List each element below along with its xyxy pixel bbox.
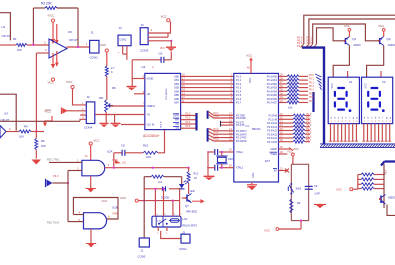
svg-text:NPN BCE: NPN BCE [186,211,197,214]
svg-text:P0.6/AD6: P0.6/AD6 [267,98,278,101]
svg-text:P2.1/A9: P2.1/A9 [268,118,277,121]
svg-text:DB7: DB7 [174,102,179,105]
svg-text:-VCC: -VCC [44,108,52,112]
svg-text:P3.2: P3.2 [186,113,191,115]
svg-text:EXT: EXT [265,159,270,163]
svg-text:P0.5: P0.5 [309,94,314,96]
svg-text:P3.6/WR: P3.6/WR [236,117,246,120]
svg-text:D1: D1 [159,180,163,184]
svg-text:CA: CA [349,80,353,84]
svg-text:J2: J2 [87,95,91,99]
svg-text:CON1: CON1 [90,56,99,60]
svg-text:OP-07: OP-07 [2,34,11,38]
svg-text:U1: U1 [2,25,6,29]
svg-text:12M: 12M [228,158,233,161]
svg-text:R5: R5 [41,139,45,143]
svg-text:P2.1: P2.1 [307,118,312,120]
svg-text:PSEN: PSEN [270,153,277,156]
svg-text:VCC: VCC [160,48,165,50]
svg-text:DB1: DB1 [174,79,179,82]
svg-text:P2.5: P2.5 [307,133,312,135]
svg-text:DIODE: DIODE [161,196,169,200]
svg-text:U2A: U2A [107,150,113,154]
svg-text:P1.4: P1.4 [236,90,242,93]
svg-text:CON2: CON2 [138,255,146,259]
svg-text:INTR: INTR [173,114,179,117]
svg-text:P0.0: P0.0 [309,75,314,77]
svg-text:VCC: VCC [293,147,299,151]
svg-text:10K: 10K [146,155,151,159]
svg-text:P2.0: P2.0 [307,114,312,116]
svg-text:P3.4/T0: P3.4/T0 [236,124,245,127]
svg-text:Q1: Q1 [352,37,356,41]
svg-text:Q7: Q7 [185,204,189,208]
svg-text:P2.7: P2.7 [307,140,312,142]
svg-text:XTAL1: XTAL1 [236,151,244,154]
svg-text:10K: 10K [19,135,24,139]
svg-text:CON4: CON4 [84,126,93,130]
svg-text:R4: R4 [24,125,28,129]
svg-text:P3.4: P3.4 [186,122,191,124]
svg-text:C9: C9 [314,184,318,188]
svg-text:10K: 10K [288,107,293,110]
svg-text:P0.4/AD4: P0.4/AD4 [267,90,278,93]
svg-text:LS1: LS1 [183,217,188,221]
svg-text:P1.1: P1.1 [236,79,242,82]
svg-text:CON2: CON2 [119,38,127,41]
svg-text:AGND: AGND [147,78,154,81]
svg-text:CON3: CON3 [140,49,149,53]
svg-text:-IN: -IN [147,114,150,117]
svg-text:VREF/2: VREF/2 [147,105,156,108]
svg-text:VCC: VCC [102,199,108,203]
svg-text:DB0: DB0 [174,75,179,78]
svg-text:P0.1/AD1: P0.1/AD1 [267,79,278,82]
svg-text:U1: U1 [246,124,250,128]
svg-text:Q2: Q2 [387,37,391,41]
svg-text:CLK IN: CLK IN [147,124,155,127]
svg-text:A9015: A9015 [388,44,395,47]
svg-text:P0.3: P0.3 [309,86,314,88]
svg-text:P0.7: P0.7 [309,101,314,103]
svg-text:P1.2: P1.2 [236,83,242,86]
svg-text:P0.5/AD5: P0.5/AD5 [267,94,278,97]
svg-text:RD: RD [176,123,180,126]
svg-text:REC TRIG: REC TRIG [47,157,59,161]
svg-text:VCC: VCC [344,24,350,28]
svg-text:P0.2/AD2: P0.2/AD2 [267,83,278,86]
svg-text:P1.6: P1.6 [236,98,242,101]
svg-text:RELAY-SPST: RELAY-SPST [183,225,198,228]
svg-text:VCC: VCC [336,187,342,191]
svg-text:P2.5/A13: P2.5/A13 [267,133,278,136]
svg-text:U2B: U2B [112,206,118,210]
svg-text:R1: R1 [13,37,17,41]
svg-text:P2.3: P2.3 [307,125,312,127]
svg-text:R12: R12 [194,173,199,176]
svg-text:7409: 7409 [112,212,118,216]
svg-text:P2.4: P2.4 [307,129,312,131]
svg-text:XTAL2: XTAL2 [236,167,244,170]
svg-text:CS: CS [176,127,180,130]
svg-text:P3.6: P3.6 [214,115,220,118]
svg-text:C6: C6 [159,52,163,56]
svg-text:WR: WR [175,119,179,122]
svg-text:P3.0: P3.0 [385,169,388,175]
svg-text:4.7: 4.7 [111,66,115,70]
svg-text:10K: 10K [41,144,46,148]
svg-text:CA: CA [382,80,386,84]
svg-text:R6: R6 [112,86,116,90]
svg-text:DB3: DB3 [174,87,179,90]
svg-text:P1.0: P1.0 [236,76,242,79]
svg-text:1K: 1K [194,177,197,180]
svg-text:VCC: VCC [264,228,270,232]
svg-text:P2.4/A12: P2.4/A12 [267,130,278,133]
svg-text:J4: J4 [119,26,123,30]
svg-text:P2.7/A15: P2.7/A15 [267,141,278,144]
svg-text:GND: GND [252,172,255,178]
svg-text:VCC: VCC [120,196,127,200]
svg-text:P1.7: P1.7 [236,102,242,105]
svg-text:U5: U5 [68,30,72,34]
svg-text:P2.2/A10: P2.2/A10 [267,122,278,125]
svg-text:U4: U4 [142,65,146,69]
svg-text:+IN: +IN [147,93,151,96]
svg-text:DB6: DB6 [174,98,179,101]
svg-text:ALE/P: ALE/P [270,148,277,151]
svg-text:89C51: 89C51 [252,127,261,131]
svg-text:P2.3/A11: P2.3/A11 [267,126,277,129]
svg-text:P3.0: P3.0 [53,174,59,178]
svg-text:P0.4: P0.4 [309,90,314,92]
svg-text:VCC: VCC [100,43,107,47]
svg-text:SW1: SW1 [296,187,302,191]
svg-text:VCC: VCC [249,78,252,83]
svg-text:P0.6: P0.6 [309,97,314,99]
svg-text:J1: J1 [91,31,95,35]
svg-text:OP-07: OP-07 [69,38,78,42]
svg-text:ADC0804+: ADC0804+ [143,134,160,138]
svg-text:P3.0: P3.0 [214,138,220,141]
svg-text:P0.2: P0.2 [309,82,314,84]
svg-text:DB4: DB4 [174,90,179,93]
svg-text:P3.0/RXD: P3.0/RXD [236,140,247,143]
svg-text:P2.2: P2.2 [307,122,312,124]
svg-text:P2.0/A8: P2.0/A8 [268,115,277,118]
svg-text:R2: R2 [297,201,301,205]
svg-text:U3: U3 [4,112,8,116]
svg-text:P3.5: P3.5 [186,126,191,128]
svg-text:P0.1: P0.1 [309,79,314,81]
svg-text:LED: LED [190,190,195,193]
svg-text:VCC: VCC [363,83,367,89]
svg-text:VCC: VCC [48,81,55,85]
svg-text:P2.6/A14: P2.6/A14 [267,137,278,140]
svg-text:P1.5: P1.5 [236,94,242,97]
svg-text:P0.3/AD3: P0.3/AD3 [267,87,278,90]
svg-text:A9015: A9015 [353,44,361,47]
svg-text:P0.7/AD7: P0.7/AD7 [267,102,278,105]
svg-text:CLK R: CLK R [161,121,163,128]
svg-text:-VCC: -VCC [47,14,55,18]
svg-text:K: K [111,70,113,74]
svg-text:REC PLAY: REC PLAY [47,221,60,225]
svg-text:EA: EA [274,170,278,173]
svg-text:VCC: VCC [246,54,253,58]
svg-text:S8550: S8550 [388,197,395,200]
svg-text:R3 20K: R3 20K [41,2,53,6]
svg-text:10K: 10K [99,96,104,100]
svg-text:P2.6: P2.6 [307,136,312,138]
svg-text:VCC AGND: VCC AGND [165,88,168,100]
svg-text:J2: J2 [141,23,145,27]
svg-text:DB5: DB5 [174,94,179,97]
svg-text:CAP: CAP [315,192,321,196]
svg-text:VCC: VCC [94,139,100,143]
svg-text:P0.0/AD0: P0.0/AD0 [267,76,278,79]
svg-text:VCC: VCC [378,24,384,28]
svg-text:C8: C8 [121,144,125,148]
svg-text:R10: R10 [143,144,149,148]
svg-text:VCC: VCC [161,15,168,19]
svg-text:VCC: VCC [330,83,334,89]
svg-text:10K: 10K [17,48,22,52]
svg-text:P1.3: P1.3 [236,87,242,90]
svg-text:P3.3: P3.3 [186,118,191,120]
svg-text:DB2: DB2 [174,83,179,86]
svg-text:J1: J1 [141,249,144,253]
svg-text:VCC: VCC [66,80,73,84]
svg-text:CON1: CON1 [179,247,187,251]
